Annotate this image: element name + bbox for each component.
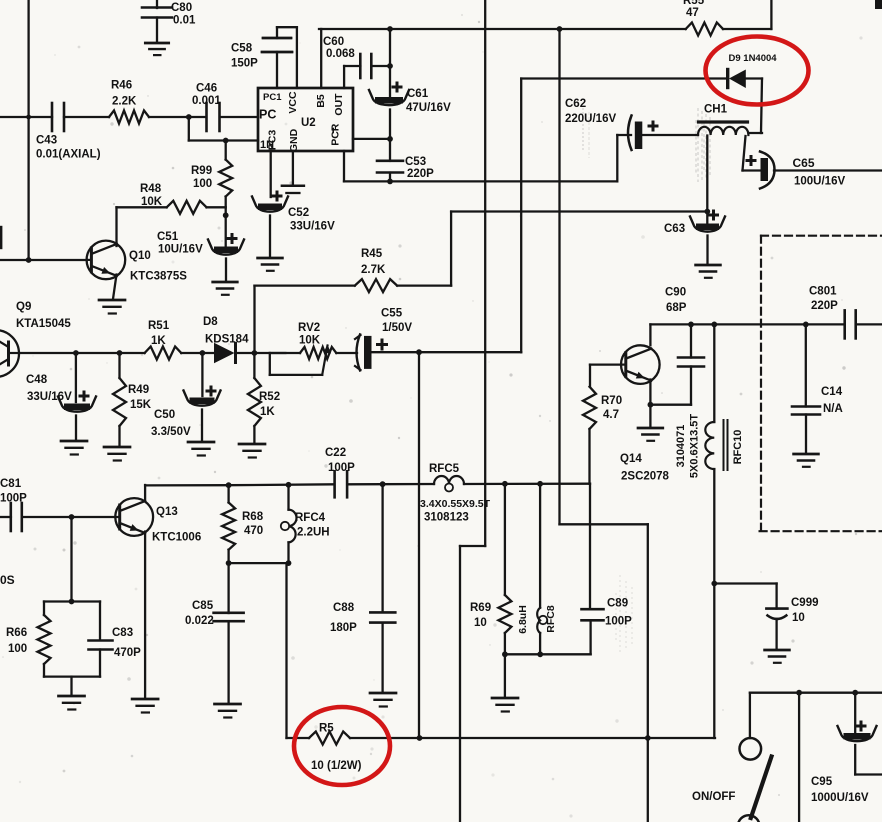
svg-text:C14: C14	[821, 386, 843, 398]
svg-text:R99: R99	[191, 165, 212, 177]
svg-text:100: 100	[193, 178, 212, 190]
svg-text:Q14: Q14	[620, 453, 642, 465]
svg-text:4.7: 4.7	[603, 409, 619, 421]
svg-text:Q13: Q13	[156, 506, 178, 518]
svg-text:220U/16V: 220U/16V	[565, 113, 616, 125]
svg-text:C55: C55	[381, 308, 403, 320]
svg-text:R70: R70	[601, 395, 622, 407]
svg-text:470P: 470P	[114, 647, 141, 659]
svg-text:0S: 0S	[0, 573, 15, 587]
svg-text:C53: C53	[405, 156, 426, 168]
svg-text:3104071: 3104071	[675, 425, 687, 468]
svg-text:10: 10	[792, 612, 805, 624]
svg-text:KDS184: KDS184	[205, 334, 249, 346]
svg-text:C63: C63	[664, 223, 685, 235]
svg-text:RV2: RV2	[298, 322, 320, 334]
svg-text:10: 10	[474, 617, 487, 629]
svg-text:RFC5: RFC5	[429, 463, 460, 475]
svg-text:68P: 68P	[666, 302, 687, 314]
svg-text:3.4X0.55X9.5T: 3.4X0.55X9.5T	[420, 498, 491, 510]
svg-text:R52: R52	[259, 391, 280, 403]
svg-text:N/A: N/A	[823, 403, 843, 415]
svg-text:6.8uH: 6.8uH	[517, 605, 529, 634]
svg-text:R55: R55	[683, 0, 705, 7]
svg-text:C22: C22	[325, 447, 346, 459]
svg-text:C62: C62	[565, 98, 586, 110]
svg-text:R51: R51	[148, 320, 170, 332]
svg-text:Q10: Q10	[129, 250, 151, 262]
svg-text:0.01(AXIAL): 0.01(AXIAL)	[36, 149, 101, 161]
svg-text:GND: GND	[288, 128, 300, 152]
svg-text:KTA15045: KTA15045	[16, 318, 71, 330]
svg-text:2.2UH: 2.2UH	[297, 527, 330, 539]
svg-text:U2: U2	[301, 117, 316, 129]
svg-text:1000U/16V: 1000U/16V	[811, 792, 869, 804]
svg-text:RFC10: RFC10	[732, 430, 744, 465]
svg-text:3.3/50V: 3.3/50V	[151, 426, 191, 438]
svg-text:0.022: 0.022	[185, 615, 214, 627]
svg-text:100: 100	[8, 643, 27, 655]
svg-text:15K: 15K	[130, 399, 152, 411]
svg-text:47: 47	[686, 7, 699, 19]
svg-text:2.2K: 2.2K	[112, 96, 137, 108]
svg-text:C48: C48	[26, 374, 48, 386]
svg-text:C81: C81	[0, 478, 22, 490]
svg-text:PC1: PC1	[263, 92, 282, 103]
svg-text:10 (1/2W): 10 (1/2W)	[311, 760, 362, 772]
svg-text:C80: C80	[171, 2, 192, 14]
svg-text:C801: C801	[809, 286, 837, 298]
svg-text:OUT: OUT	[333, 93, 345, 116]
svg-text:10K: 10K	[141, 196, 163, 208]
svg-text:220P: 220P	[407, 168, 434, 180]
svg-text:0.001: 0.001	[192, 95, 221, 107]
svg-text:ON/OFF: ON/OFF	[692, 791, 735, 803]
svg-text:RFC8: RFC8	[545, 605, 557, 633]
svg-text:R68: R68	[242, 511, 264, 523]
svg-text:1K: 1K	[260, 406, 275, 418]
svg-text:C88: C88	[333, 602, 355, 614]
svg-text:3108123: 3108123	[424, 512, 469, 524]
svg-text:C43: C43	[36, 135, 57, 147]
svg-text:0.01: 0.01	[173, 15, 196, 27]
svg-text:100P: 100P	[328, 462, 355, 474]
svg-text:2.7K: 2.7K	[361, 264, 386, 276]
svg-text:KTC1006: KTC1006	[152, 532, 201, 544]
svg-text:RFC4: RFC4	[295, 512, 326, 524]
svg-text:100U/16V: 100U/16V	[794, 176, 845, 188]
svg-text:33U/16V: 33U/16V	[290, 221, 335, 233]
svg-text:R49: R49	[128, 384, 149, 396]
svg-text:PCR: PCR	[330, 123, 342, 146]
svg-text:R69: R69	[470, 602, 491, 614]
svg-text:R66: R66	[6, 627, 27, 639]
svg-text:1K: 1K	[151, 335, 166, 347]
svg-text:B5: B5	[315, 94, 327, 108]
svg-text:180P: 180P	[330, 622, 357, 634]
svg-text:PC3: PC3	[267, 130, 279, 151]
svg-text:0.068: 0.068	[326, 48, 355, 60]
svg-text:Q9: Q9	[16, 301, 31, 313]
svg-text:KTC3875S: KTC3875S	[130, 271, 187, 283]
svg-text:5X0.6X13.5T: 5X0.6X13.5T	[689, 414, 701, 478]
svg-text:2SC2078: 2SC2078	[621, 471, 670, 483]
svg-text:1/50V: 1/50V	[382, 322, 412, 334]
svg-text:C50: C50	[154, 409, 175, 421]
svg-text:100P: 100P	[605, 616, 632, 628]
svg-text:R48: R48	[140, 183, 162, 195]
svg-text:10K: 10K	[299, 335, 321, 347]
svg-text:C60: C60	[323, 36, 344, 48]
svg-text:R5: R5	[319, 723, 334, 735]
svg-text:100P: 100P	[0, 493, 27, 505]
svg-text:D9 1N4004: D9 1N4004	[729, 53, 778, 64]
svg-text:R45: R45	[361, 248, 383, 260]
svg-text:470: 470	[244, 525, 263, 537]
svg-text:D8: D8	[203, 316, 218, 328]
svg-text:10U/16V: 10U/16V	[158, 244, 203, 256]
svg-text:C46: C46	[196, 83, 217, 95]
svg-text:150P: 150P	[231, 58, 258, 70]
svg-text:C89: C89	[607, 598, 628, 610]
svg-text:PC: PC	[259, 108, 276, 122]
svg-text:C999: C999	[791, 597, 819, 609]
svg-text:C61: C61	[407, 88, 429, 100]
svg-text:C85: C85	[192, 600, 214, 612]
svg-text:47U/16V: 47U/16V	[406, 102, 451, 114]
svg-text:C58: C58	[231, 43, 253, 55]
svg-text:C90: C90	[665, 287, 686, 299]
svg-text:C65: C65	[793, 156, 815, 170]
svg-text:C95: C95	[811, 776, 833, 788]
svg-text:33U/16V: 33U/16V	[27, 391, 72, 403]
svg-text:C52: C52	[288, 207, 309, 219]
svg-text:C83: C83	[112, 627, 133, 639]
svg-text:VCC: VCC	[287, 91, 299, 114]
svg-text:220P: 220P	[811, 300, 838, 312]
svg-text:C51: C51	[157, 231, 179, 243]
svg-text:CH1: CH1	[704, 104, 728, 116]
svg-text:R46: R46	[111, 80, 132, 92]
